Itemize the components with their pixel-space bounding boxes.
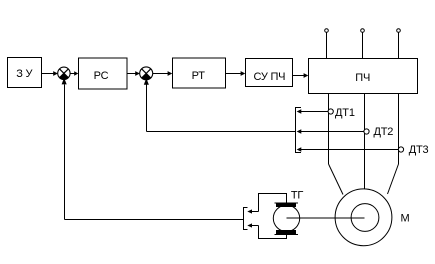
arrowhead into RT — [168, 71, 173, 76]
phase wire 1 vertical — [328, 94, 330, 165]
arrowhead into sum2 bottom — [144, 78, 149, 85]
current feedback riser — [146, 85, 148, 132]
TG top stub wire — [251, 211, 259, 213]
motor M inner circle — [351, 204, 379, 232]
box ZU (ЗУ setpoint device) — [8, 58, 42, 88]
svg-text:М: М — [401, 213, 410, 225]
svg-text:ДТ1: ДТ1 — [335, 107, 355, 119]
tachogenerator TG body — [273, 205, 299, 231]
phase wire 2 vertical — [364, 94, 366, 190]
phase wire 1 slanted — [329, 164, 344, 195]
svg-text:СУ ПЧ: СУ ПЧ — [253, 71, 285, 83]
arrowhead into RS — [74, 71, 78, 75]
summing junction sum2 — [140, 67, 153, 80]
wire RT to SU PCh — [226, 73, 242, 75]
tap wire DT3 — [301, 149, 399, 151]
svg-text:ДТ3: ДТ3 — [409, 144, 429, 156]
tap wire DT2 — [301, 131, 365, 133]
arrowhead into sum2 — [135, 71, 140, 76]
sensor DT2 — [364, 129, 369, 134]
supply lead 2 — [362, 33, 364, 59]
wire RS to sum2 — [127, 73, 136, 75]
wire ZU to sum1 — [42, 73, 55, 75]
svg-text:РТ: РТ — [192, 70, 206, 82]
current feedback wire to sum2 — [147, 131, 296, 133]
TG top hook wire — [259, 194, 287, 212]
supply terminal 1 — [325, 29, 329, 33]
svg-text:РС: РС — [94, 70, 109, 82]
wire sum2 to RT — [153, 73, 169, 75]
svg-text:ПЧ: ПЧ — [355, 72, 370, 84]
motor M outer circle — [335, 189, 392, 246]
arrowhead DT3 tap — [297, 147, 302, 151]
TG bottom hook wire — [259, 226, 287, 239]
phase wire 3 slanted — [388, 164, 399, 194]
arrowhead into sum1 bottom — [62, 78, 67, 85]
supply terminal 2 — [361, 29, 365, 33]
box SU PCh (СУ ПЧ inverter control system) — [246, 59, 293, 87]
wire SU PCh to PCh — [293, 75, 305, 77]
box PCh (ПЧ frequency converter) — [309, 59, 418, 94]
supply lead 1 — [326, 33, 328, 59]
arrowhead DT2 tap — [297, 129, 302, 133]
shaft wire TG to motor — [287, 217, 365, 219]
speed feedback riser — [64, 85, 66, 220]
arrowhead TG top stub — [247, 209, 252, 213]
sensor DT1 — [328, 109, 333, 114]
arrowhead into sum1 — [53, 71, 58, 76]
wire sum1 to RS — [70, 73, 76, 75]
box RS (РС speed regulator) — [79, 58, 128, 89]
speed feedback wire bottom — [65, 219, 244, 221]
svg-text:ДТ2: ДТ2 — [373, 126, 393, 138]
sensor DT3 — [398, 147, 403, 152]
TG bracket — [244, 208, 248, 230]
svg-text:З У: З У — [16, 68, 33, 80]
sensor bracket (current feedback collector) — [296, 108, 302, 153]
box RT (РТ current regulator) — [173, 58, 226, 88]
arrowhead DT1 tap — [297, 109, 302, 113]
arrowhead into PCh — [304, 73, 309, 78]
supply lead 3 — [398, 33, 400, 59]
TG bottom brush — [275, 230, 299, 235]
phase wire 3 vertical — [398, 94, 400, 165]
svg-text:ТГ: ТГ — [291, 190, 304, 202]
TG top brush — [275, 202, 299, 207]
arrowhead TG bottom stub — [247, 223, 252, 227]
tap wire DT1 — [301, 111, 329, 113]
arrowhead into SU PCh — [241, 71, 246, 76]
summing junction sum1 — [58, 67, 70, 79]
supply terminal 3 — [397, 29, 401, 33]
TG bottom stub wire — [251, 225, 259, 227]
